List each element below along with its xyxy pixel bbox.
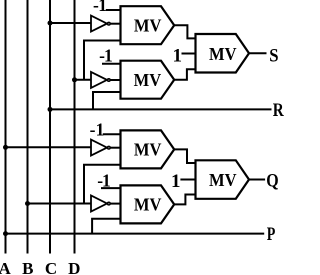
wire A to inverter N3 [6, 146, 92, 148]
svg-text:P: P [267, 223, 276, 245]
svg-text:MV: MV [134, 140, 162, 160]
wire input line C [49, 0, 51, 254]
wire input line D [74, 0, 76, 254]
svg-text:A: A [0, 259, 11, 275]
svg-text:-1: -1 [99, 46, 113, 66]
svg-text:1: 1 [173, 45, 183, 66]
svg-text:-1: -1 [93, 0, 107, 15]
majority voter U1 [121, 6, 175, 44]
wire 1 constant to U3 middle input [182, 53, 196, 55]
wire U4 output to U6 top input [174, 149, 195, 163]
wire B tap to U4 bottom input [84, 165, 121, 204]
inverter N4 [91, 196, 110, 212]
wire -1 constant to U4 top input [103, 133, 121, 135]
wire C to inverter N1 [50, 22, 91, 24]
wire 1 constant to U6 middle input [180, 179, 195, 181]
majority voter U2 [121, 61, 175, 99]
wire P line [6, 233, 265, 235]
wire input line A [5, 0, 7, 254]
wire R tap to U2 bottom input [93, 92, 121, 109]
wire -1 constant to U2 top input [102, 63, 121, 65]
majority voter U4 [121, 130, 175, 168]
svg-text:MV: MV [134, 195, 162, 215]
wire inverter N2 output to U2 [110, 79, 120, 81]
inverter N2 [91, 72, 110, 88]
svg-text:D: D [68, 259, 80, 275]
svg-text:MV: MV [134, 70, 162, 90]
majority voter U5 [121, 185, 175, 223]
node A junction to P line [3, 231, 8, 236]
wire inverter N4 output to U5 [110, 203, 120, 205]
node D junction to inverter N2 [72, 77, 77, 82]
wire inverter N3 output to U4 [110, 147, 120, 149]
majority voter U3 [196, 34, 250, 73]
node C junction to R line [48, 107, 53, 112]
wire P tap to U5 bottom input [92, 219, 120, 234]
svg-text:C: C [45, 259, 57, 275]
node C junction to inverter N1 [48, 21, 53, 26]
wire U5 output to U6 bottom input [174, 195, 195, 205]
svg-text:B: B [22, 259, 33, 275]
wire D to inverter N2 [75, 79, 92, 81]
wire -1 constant to U5 top input [101, 187, 121, 189]
svg-text:S: S [269, 44, 278, 65]
wire inverter N1 output to U1 [110, 23, 120, 25]
svg-text:1: 1 [171, 171, 181, 192]
wire R line [50, 108, 272, 110]
svg-text:R: R [273, 99, 284, 120]
svg-text:MV: MV [209, 45, 237, 65]
svg-text:MV: MV [209, 170, 237, 190]
wire -1 constant to U1 top input [106, 9, 121, 11]
wire U3 output to S [249, 52, 267, 54]
svg-text:-1: -1 [90, 120, 105, 140]
wire input line B [27, 0, 29, 254]
node A junction to inverter N3 [3, 145, 8, 150]
inverter N3 [91, 140, 110, 156]
inverter N1 [91, 16, 110, 32]
wire U6 output to Q [249, 179, 265, 181]
svg-text:Q: Q [266, 169, 278, 191]
svg-text:MV: MV [134, 16, 162, 36]
wire U2 output to U3 bottom input [174, 69, 195, 79]
majority voter U6 [196, 160, 250, 199]
wire U1 output to U3 top input [174, 25, 195, 38]
node B junction to inverter N4 [25, 201, 30, 206]
wire B to inverter N4 [28, 203, 92, 205]
wire D tap to U1 bottom input [84, 41, 121, 80]
